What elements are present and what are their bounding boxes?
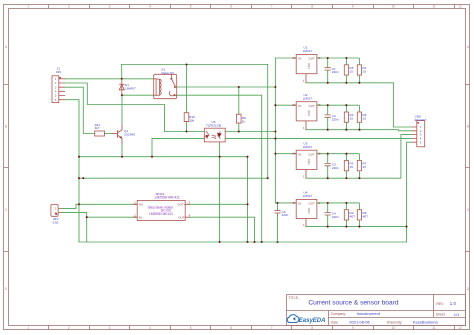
- wire J1 pin2 to opto route: [65, 83, 205, 132]
- svg-text:OUT: OUT: [308, 57, 315, 61]
- svg-text:OUT-: OUT-: [178, 215, 185, 219]
- wire U1 OUT rail: [317, 57, 360, 59]
- wire Y1 bus: [79, 156, 248, 158]
- svg-text:220n: 220n: [332, 166, 339, 170]
- svg-text:LM2596 HW-411: LM2596 HW-411: [149, 212, 173, 216]
- wire R9 bottom to opto pin4 wire: [238, 123, 240, 131]
- wire U1 IN: [275, 57, 296, 59]
- capacitor C6: [274, 202, 288, 242]
- junction Y2 right end: [267, 177, 269, 179]
- svg-text:15: 15: [363, 117, 367, 121]
- junction R9 top: [238, 86, 240, 88]
- svg-text:OUT: OUT: [308, 202, 315, 206]
- wire H1 top bus: [122, 64, 268, 66]
- junction MOD1 IN+: [78, 203, 80, 205]
- title block line under company row: [329, 317, 466, 319]
- svg-text:3: 3: [109, 5, 111, 9]
- svg-text:Date:: Date:: [331, 321, 339, 325]
- junction D1 top: [121, 78, 123, 80]
- svg-text:7: 7: [271, 326, 273, 330]
- svg-text:4: 4: [149, 326, 151, 330]
- module MOD1: [133, 200, 189, 220]
- resistor R10: [184, 113, 189, 122]
- wire bottom bus: [79, 241, 407, 243]
- svg-text:2SC945: 2SC945: [124, 133, 135, 137]
- svg-text:10: 10: [392, 326, 396, 330]
- svg-text:Drawn By:: Drawn By:: [387, 321, 403, 325]
- wire Y2 bus: [79, 177, 268, 179]
- wire R4 stubs: [345, 203, 347, 227]
- svg-text:5: 5: [190, 5, 192, 9]
- optocoupler U5: [204, 128, 225, 142]
- junction R9 bottom: [238, 130, 240, 132]
- frame right ticks: [466, 85, 470, 252]
- svg-text:LM317: LM317: [303, 96, 313, 100]
- svg-text:1: 1: [27, 326, 29, 330]
- svg-text:Innostrument: Innostrument: [357, 311, 381, 316]
- wire R2 stubs: [345, 105, 347, 130]
- junction contact1 IN chain: [274, 86, 276, 88]
- relay K1: [154, 74, 177, 98]
- svg-text:OUT+: OUT+: [177, 203, 185, 207]
- svg-text:5: 5: [190, 326, 192, 330]
- frame bottom ticks: [49, 326, 455, 330]
- resistor R9: [237, 114, 242, 123]
- junction bus OUT-: [253, 241, 255, 243]
- svg-text:OUT: OUT: [308, 104, 315, 108]
- junction Y1 right node: [246, 156, 248, 158]
- svg-text:11: 11: [432, 326, 436, 330]
- wire R3 stubs: [345, 154, 347, 179]
- svg-text:LM317: LM317: [303, 194, 313, 198]
- junction chain pin4 wire: [274, 138, 276, 140]
- svg-text:15: 15: [350, 117, 354, 121]
- svg-text:9: 9: [352, 5, 354, 9]
- svg-text:9: 9: [352, 326, 354, 330]
- wire IN- branch down to bottom bus: [86, 217, 88, 242]
- wire R1 stubs: [358, 58, 360, 83]
- svg-text:CN1: CN1: [53, 221, 59, 225]
- wire opto emitter down to bottom bus: [219, 142, 221, 242]
- svg-text:IN-: IN-: [139, 215, 143, 219]
- title block logo divider: [328, 311, 330, 326]
- frame left ticks: [4, 85, 9, 252]
- junction U3 IN: [274, 153, 276, 155]
- svg-text:TITLE:: TITLE:: [289, 296, 299, 300]
- diode D1: [119, 79, 124, 96]
- svg-text:4: 4: [149, 5, 151, 9]
- junction pin6 J1 Y2: [78, 177, 80, 179]
- wire MOD1 OUT- to bottom bus: [189, 217, 254, 242]
- svg-text:3: 3: [109, 326, 111, 330]
- svg-text:IN: IN: [298, 57, 301, 61]
- wire R10 bottom to opto pin1: [186, 122, 188, 132]
- svg-text:IN: IN: [298, 202, 301, 206]
- svg-text:ADJ: ADJ: [307, 159, 311, 165]
- svg-text:1k: 1k: [242, 119, 246, 123]
- junction Q1 emitter Y1: [121, 156, 123, 158]
- wire U2 IN: [275, 104, 296, 106]
- wire C1 stubs: [327, 58, 329, 83]
- title block outline: [287, 295, 466, 326]
- svg-text:Sheet:: Sheet:: [436, 313, 446, 317]
- svg-text:IN: IN: [298, 152, 301, 156]
- connector CN5: [412, 121, 425, 147]
- wire U1 ADJ rail to CN5 pin1: [306, 83, 412, 127]
- svg-text:1.0: 1.0: [450, 301, 457, 306]
- svg-text:EP-OUT: EP-OUT: [415, 118, 427, 122]
- CN5 pin numbers: [420, 125, 422, 144]
- svg-text:12: 12: [458, 326, 462, 330]
- svg-text:7: 7: [271, 5, 273, 9]
- wire CN1 pin1 to MOD1 IN-: [61, 213, 137, 218]
- wire U2 ADJ rail to CN5 pin2: [306, 130, 412, 131]
- svg-text:2: 2: [68, 326, 70, 330]
- svg-text:10: 10: [392, 5, 396, 9]
- wire opto pin2 to Y1: [152, 139, 204, 157]
- wire LM317 IN chain vertical: [274, 58, 276, 203]
- wire CN1 pin2 to MOD1 IN+: [61, 204, 137, 208]
- wire relay contact1 to LM317 IN chain: [177, 86, 276, 88]
- wire R7 stubs: [358, 154, 360, 179]
- junction bus contact2: [261, 241, 263, 243]
- svg-text:15: 15: [363, 165, 367, 169]
- wire R6 stubs: [358, 105, 360, 130]
- wire opto pin3 to CN5 pin4: [225, 138, 412, 140]
- junction bus C6: [276, 241, 278, 243]
- svg-text:1/1: 1/1: [454, 312, 460, 317]
- svg-text:8: 8: [311, 326, 313, 330]
- junction bus Y1 branch: [246, 241, 248, 243]
- connector J1: [52, 76, 65, 103]
- wire U3 OUT rail: [317, 153, 360, 155]
- svg-text:ADJ: ADJ: [307, 110, 311, 116]
- svg-text:EasyEDA: EasyEDA: [299, 318, 326, 324]
- wire relay contact2 down to bottom bus: [177, 95, 262, 242]
- MOD1 inner text: [148, 205, 173, 216]
- wire relay coil bottom / D1 bottom / Q1 collector: [122, 94, 153, 96]
- resistor R11: [95, 131, 105, 136]
- junction H1 R10: [185, 63, 187, 65]
- junction opto pin2 Y1: [151, 156, 153, 158]
- svg-text:TLP521GB: TLP521GB: [206, 124, 221, 128]
- wire C4 stubs: [327, 203, 329, 227]
- svg-text:B: B: [5, 125, 7, 129]
- svg-text:LM317: LM317: [303, 49, 313, 53]
- svg-text:10k: 10k: [189, 118, 194, 122]
- connector CN1: [51, 205, 61, 217]
- svg-text:4E7: 4E7: [363, 214, 369, 218]
- junction opto pin4 chain: [274, 130, 276, 132]
- svg-text:OUT: OUT: [308, 152, 315, 156]
- wire R11 to Q1 base: [105, 133, 113, 135]
- junction opto emitter Y1: [219, 156, 221, 158]
- EasyEDA logo: [287, 315, 325, 324]
- svg-text:B: B: [467, 125, 469, 129]
- svg-text:11: 11: [432, 5, 436, 9]
- svg-text:15: 15: [350, 69, 354, 73]
- svg-text:IN+: IN+: [139, 203, 144, 207]
- svg-text:15: 15: [350, 165, 354, 169]
- title block rev column divider: [433, 295, 435, 318]
- svg-text:Company:: Company:: [331, 312, 347, 316]
- junction pin6 J1 Y1: [78, 156, 80, 158]
- wire D1 top to H1: [121, 65, 123, 79]
- svg-text:2021-08-06: 2021-08-06: [349, 320, 370, 325]
- junction bus opto emitter: [219, 241, 221, 243]
- svg-text:328: 328: [56, 70, 61, 74]
- wire R10 feed from H1: [186, 65, 188, 113]
- junction OUT+ node: [246, 203, 248, 205]
- wire R8 stubs: [358, 203, 360, 227]
- svg-text:Relay 5V: Relay 5V: [162, 71, 175, 75]
- svg-text:LM2596 HW-411: LM2596 HW-411: [155, 196, 180, 200]
- junction D1 bottom: [121, 94, 123, 96]
- svg-text:Current source & sensor board: Current source & sensor board: [308, 299, 398, 306]
- wire R9 feed from contact1: [238, 87, 240, 114]
- wire U3 ADJ rail to CN5 pin3: [306, 135, 412, 179]
- junction rail pin5 vertical: [405, 226, 407, 228]
- wire Q1 emitter down to Y1: [121, 144, 123, 157]
- wire U2 OUT rail: [317, 104, 360, 106]
- regulator U2: [292, 102, 362, 130]
- CN1 pin numbers: [54, 207, 56, 215]
- svg-text:4k7: 4k7: [95, 126, 100, 130]
- svg-text:4E7: 4E7: [350, 214, 356, 218]
- wire J1 pin1 to relay coil top: [65, 78, 154, 80]
- wire U3 IN: [275, 153, 296, 155]
- wire C2 stubs: [327, 105, 329, 130]
- svg-text:1: 1: [27, 5, 29, 9]
- wire R5 stubs: [345, 58, 347, 83]
- svg-text:KeesBootsma: KeesBootsma: [413, 320, 439, 325]
- wire Q1 collector up: [121, 95, 123, 124]
- regulator U3: [292, 150, 362, 178]
- svg-text:220n: 220n: [332, 117, 339, 121]
- wire Y1 branch down to OUT+ node and bus: [247, 157, 249, 242]
- svg-text:ADJ: ADJ: [307, 208, 311, 214]
- wire J1 pin6 down to MOD1 IN+ node: [65, 100, 80, 242]
- wire C3 stubs: [327, 154, 329, 179]
- svg-text:6: 6: [230, 5, 232, 9]
- junction MOD1 IN-: [86, 216, 88, 218]
- svg-text:ADJ: ADJ: [307, 63, 311, 69]
- junction R10 opto pin1: [185, 130, 187, 132]
- svg-text:REV: REV: [436, 302, 444, 306]
- transistor Q1: [112, 124, 122, 144]
- svg-text:220n: 220n: [332, 215, 339, 219]
- title block line under title row: [287, 310, 466, 312]
- regulator U1: [292, 55, 362, 83]
- wire J1 pin3 to R11: [65, 87, 95, 133]
- junction U2 IN: [274, 104, 276, 106]
- svg-text:8: 8: [311, 5, 313, 9]
- svg-text:2: 2: [68, 5, 70, 9]
- svg-text:12: 12: [458, 5, 462, 9]
- wire H1 down to Y2: [267, 65, 269, 179]
- wire MOD1 OUT+ to node: [189, 203, 247, 205]
- svg-text:IN: IN: [298, 104, 301, 108]
- svg-text:6: 6: [230, 326, 232, 330]
- svg-text:220n: 220n: [332, 70, 339, 74]
- svg-text:1N4007: 1N4007: [125, 86, 136, 90]
- junction pin3 J1 on Y2: [82, 177, 84, 179]
- wire U4 ADJ rail: [306, 226, 407, 228]
- wire opto pin4 to IN chain: [225, 131, 275, 133]
- wire U4 OUT rail: [317, 202, 360, 204]
- wire U4 IN: [275, 202, 296, 204]
- frame top ticks: [49, 5, 455, 9]
- svg-text:220n: 220n: [282, 213, 289, 217]
- regulator U4: [292, 199, 362, 226]
- svg-text:15: 15: [363, 69, 367, 73]
- svg-text:LM317: LM317: [303, 145, 313, 149]
- J1 pin numbers: [55, 77, 57, 102]
- wire rail up to CN5 pin5: [407, 142, 413, 242]
